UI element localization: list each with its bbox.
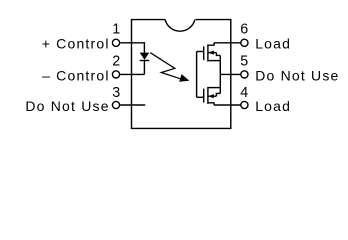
svg-text:5: 5 — [240, 54, 248, 70]
pin 2 terminal circle — [112, 71, 119, 78]
Q2 body arrow head — [208, 94, 214, 98]
pin 6 terminal circle — [241, 39, 248, 46]
Q1 source stub — [208, 60, 220, 62]
pin 1 terminal circle — [112, 39, 119, 46]
svg-text:Load: Load — [255, 98, 291, 114]
pin 2 lead wire — [120, 73, 144, 75]
Q2 gate lead — [197, 96, 204, 98]
Q2 body-source step — [216, 93, 220, 96]
pin 1 lead wire — [120, 43, 144, 53]
pin 6 lead wire — [214, 42, 241, 44]
svg-text:1: 1 — [112, 22, 120, 38]
Q1 body arrow head — [208, 51, 214, 55]
svg-text:+ Control: + Control — [42, 36, 110, 52]
svg-text:Do Not Use: Do Not Use — [255, 67, 339, 83]
package outline — [132, 20, 231, 129]
pin 3 lead stub — [120, 104, 145, 106]
gate bus wire — [196, 52, 198, 98]
Q1 gate plate — [203, 46, 205, 60]
LED cathode bar — [140, 60, 150, 62]
svg-text:Do Not Use: Do Not Use — [25, 98, 109, 114]
LED D1 triangle — [140, 53, 150, 60]
package notch — [165, 20, 195, 32]
Q2 body arrow tail — [208, 95, 216, 97]
LED cathode wire — [143, 61, 145, 75]
svg-text:6: 6 — [240, 22, 248, 38]
svg-text:Load: Load — [255, 36, 291, 52]
light arrow zigzag — [150, 53, 182, 80]
Q2 source stub — [208, 87, 220, 89]
FET common source vertical wire — [219, 55, 221, 93]
svg-text:3: 3 — [112, 85, 120, 101]
light arrow head — [179, 74, 189, 82]
pin 4 terminal circle — [241, 101, 248, 108]
Q2 drain stub to pin4 — [208, 103, 214, 105]
Q1 body-source step — [216, 53, 220, 56]
svg-text:4: 4 — [240, 85, 248, 101]
pin 3 terminal circle — [112, 101, 119, 108]
pin 5 lead wire — [220, 73, 240, 75]
Q2 gate plate — [203, 89, 205, 103]
Q1 channel — [207, 45, 209, 62]
Q2 channel — [207, 87, 209, 104]
Q1 body arrow tail — [208, 52, 216, 54]
pin 5 terminal circle — [241, 71, 248, 78]
Q1 drain stub to pin6 — [208, 43, 214, 45]
Q1 gate lead — [197, 51, 204, 53]
pin 4 lead wire — [214, 104, 241, 106]
svg-text:– Control: – Control — [42, 67, 110, 83]
svg-text:2: 2 — [112, 54, 120, 70]
